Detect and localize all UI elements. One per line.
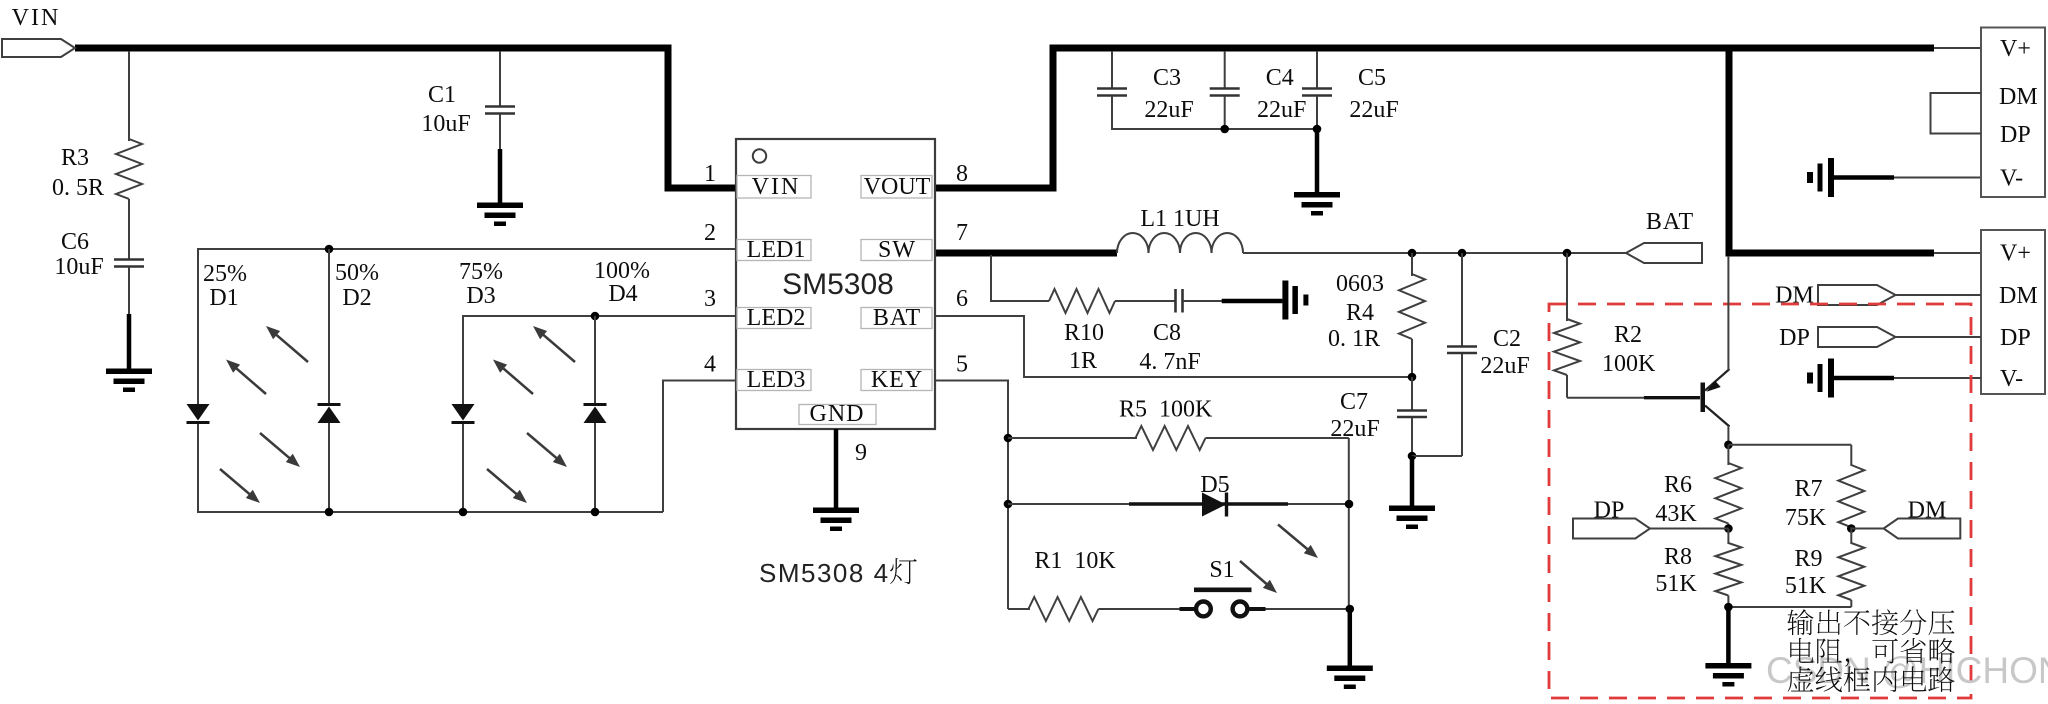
- wire D2 upper lead: [328, 249, 330, 405]
- wire R5 right down: [1348, 438, 1350, 609]
- wire L1 to BAT flag: [1243, 252, 1627, 254]
- ground at OUT1 V-: [1828, 158, 1834, 197]
- junction dot S1 right: [1346, 605, 1355, 614]
- junction dot C2 top: [1458, 249, 1467, 258]
- ground below C6: [106, 369, 152, 375]
- svg-text:DM: DM: [1999, 84, 2038, 110]
- junction dot R5 left: [1004, 434, 1013, 443]
- svg-text:DM: DM: [1908, 498, 1947, 524]
- resistor R10: [1049, 289, 1115, 313]
- svg-text:R10: R10: [1064, 320, 1104, 346]
- connector OUT2 port: [1981, 230, 2045, 394]
- svg-text:VIN: VIN: [12, 5, 61, 31]
- svg-text:VOUT: VOUT: [864, 174, 931, 200]
- svg-text:SM5308: SM5308: [782, 268, 894, 301]
- svg-text:0603: 0603: [1336, 271, 1384, 297]
- IC pin box LED1: [737, 240, 811, 261]
- capacitor C1: [485, 105, 515, 108]
- svg-text:0. 1R: 0. 1R: [1328, 326, 1380, 352]
- junction dot C5 bottom: [1313, 125, 1322, 134]
- ground below divider: [1705, 663, 1751, 669]
- connector DM flag right: [1818, 285, 1896, 305]
- resistor R9: [1850, 527, 1852, 544]
- svg-text:SW: SW: [878, 237, 916, 263]
- IC pin box SW: [861, 240, 932, 261]
- svg-text:1: 1: [704, 161, 716, 187]
- arrow near D5: [1278, 525, 1312, 553]
- junction dot rail D3: [459, 508, 468, 517]
- svg-text:R6: R6: [1664, 472, 1692, 498]
- junction dot R4 top: [1408, 249, 1417, 258]
- IC pin box VOUT: [861, 176, 932, 199]
- svg-text:43K: 43K: [1655, 501, 1697, 527]
- red dashed box: [1549, 304, 1971, 698]
- junction dot divider ground: [1724, 603, 1733, 612]
- svg-text:LED2: LED2: [747, 305, 806, 331]
- LED D3: [452, 404, 475, 421]
- wire C8 to ground: [1183, 300, 1223, 302]
- svg-text:DP: DP: [2000, 325, 2031, 351]
- svg-text:51K: 51K: [1655, 571, 1697, 597]
- wire VIN to R3: [128, 51, 130, 141]
- wire C1 to ground: [499, 114, 501, 151]
- svg-text:R9: R9: [1794, 546, 1822, 572]
- svg-text:5: 5: [956, 352, 968, 378]
- svg-text:L1 1UH: L1 1UH: [1140, 206, 1219, 232]
- junction dot D4 top: [591, 312, 600, 321]
- wire R7 branch: [1728, 444, 1851, 446]
- junction dot C7 bottom: [1408, 452, 1417, 461]
- wire D4 upper lead: [594, 316, 596, 405]
- resistor R1: [1008, 608, 1030, 610]
- svg-text:DP: DP: [2000, 122, 2031, 148]
- IC pin box BAT: [861, 308, 932, 329]
- LED D2: [318, 403, 341, 406]
- svg-text:10uF: 10uF: [54, 254, 103, 280]
- junction dot D5 right: [1345, 500, 1354, 509]
- wire D1 lower lead: [197, 421, 199, 513]
- svg-text:D5: D5: [1200, 472, 1229, 498]
- diode D5: [1202, 493, 1226, 517]
- svg-text:100K: 100K: [1602, 351, 1656, 377]
- svg-text:C8: C8: [1153, 320, 1181, 346]
- IC pin box GND: [799, 405, 876, 425]
- resistor R5: [1008, 437, 1137, 439]
- svg-text:4. 7nF: 4. 7nF: [1139, 349, 1200, 375]
- svg-text:R3: R3: [61, 145, 89, 171]
- wire R9 bottom rail: [1728, 606, 1851, 608]
- svg-text:7: 7: [956, 220, 968, 246]
- capacitor C8: [1174, 289, 1177, 313]
- connector OUT1 port: [1981, 28, 2045, 198]
- svg-text:BAT: BAT: [1646, 209, 1694, 235]
- svg-text:R4: R4: [1346, 300, 1374, 326]
- svg-text:R5 100K: R5 100K: [1119, 397, 1213, 423]
- svg-text:75%: 75%: [459, 259, 503, 285]
- svg-text:4: 4: [704, 352, 716, 378]
- svg-text:50%: 50%: [335, 260, 379, 286]
- svg-text:1R: 1R: [1069, 348, 1097, 374]
- svg-text:D4: D4: [608, 281, 637, 307]
- connector VIN flag: [2, 39, 75, 57]
- wire pin5 KEY net: [936, 381, 1008, 610]
- wire C7 to ground: [1410, 456, 1415, 506]
- resistor R6: [1727, 445, 1729, 465]
- svg-text:C6: C6: [61, 229, 89, 255]
- svg-text:V+: V+: [2000, 241, 2031, 267]
- wire pin2 LED1 net: [198, 249, 736, 405]
- junction dot Q1 collector node: [1724, 441, 1733, 450]
- IC pin box LED2: [737, 308, 811, 329]
- svg-text:C5: C5: [1358, 65, 1386, 91]
- ground at OUT2 V-: [1828, 359, 1834, 398]
- svg-text:R7: R7: [1794, 476, 1822, 502]
- svg-text:22uF: 22uF: [1349, 97, 1398, 123]
- switch S1: [1180, 607, 1195, 611]
- svg-text:22uF: 22uF: [1480, 353, 1529, 379]
- wire C3 C4 C5 bottom rail: [1112, 128, 1317, 130]
- wire VIN to C1: [499, 51, 501, 107]
- IC pin1 indicator circle: [753, 149, 766, 162]
- svg-text:3: 3: [704, 286, 716, 312]
- svg-text:DP: DP: [1594, 498, 1625, 524]
- wire pin6 BAT to R4 bottom: [936, 316, 1412, 377]
- wire VOUT to OUT1 V+ branch down to BAT node: [1729, 48, 1934, 253]
- svg-text:22uF: 22uF: [1144, 97, 1193, 123]
- svg-text:75K: 75K: [1785, 505, 1827, 531]
- resistor R8: [1727, 529, 1729, 545]
- wire R2 to transistor base: [1567, 397, 1695, 399]
- svg-text:KEY: KEY: [871, 367, 923, 393]
- resistor R3: [116, 139, 142, 199]
- ground below C5: [1294, 192, 1340, 198]
- wire OUT1 DM DP bracket: [1931, 93, 1982, 134]
- svg-text:2: 2: [704, 220, 716, 246]
- junction dot R6 R8: [1724, 524, 1733, 533]
- svg-text:R8: R8: [1664, 544, 1692, 570]
- junction dot C4 bottom: [1220, 125, 1229, 134]
- svg-text:6: 6: [956, 286, 968, 312]
- svg-text:0. 5R: 0. 5R: [52, 175, 104, 201]
- wire SW to R10: [991, 255, 1049, 301]
- svg-text:V-: V-: [2000, 366, 2023, 392]
- wire R3 to C6: [128, 199, 130, 260]
- junction dot rail D2: [325, 508, 334, 517]
- svg-text:LED3: LED3: [747, 367, 806, 393]
- LED arrows cell 1: [272, 331, 308, 362]
- junction dot rail D4: [591, 508, 600, 517]
- wire D3 lower lead: [462, 421, 464, 513]
- ground below S1: [1327, 666, 1373, 672]
- wire IC GND pin stem: [834, 429, 839, 508]
- IC pin box VIN: [737, 176, 811, 199]
- connector DP flag left: [1573, 519, 1650, 539]
- capacitor C4: [1224, 51, 1226, 89]
- svg-text:D2: D2: [342, 285, 371, 311]
- connector DM flag left-pointing: [1884, 519, 1961, 539]
- inductor L1: [1117, 233, 1243, 253]
- wire pin4 LED3 net: [663, 381, 736, 513]
- LED D4: [584, 403, 607, 406]
- wire cap bank to ground: [1315, 129, 1320, 193]
- wire LED bottom rail: [197, 511, 663, 513]
- junction dot R4 bottom: [1408, 373, 1417, 382]
- wire D5 row: [1008, 503, 1349, 505]
- svg-text:22uF: 22uF: [1257, 97, 1306, 123]
- svg-text:V-: V-: [2000, 166, 2023, 192]
- wire pin3 LED2 net: [463, 316, 736, 405]
- LED arrows cell 2: [539, 331, 575, 362]
- svg-text:51K: 51K: [1785, 573, 1827, 599]
- wire D4 lower lead: [594, 422, 596, 513]
- capacitor C6: [114, 258, 144, 261]
- connector DP flag right: [1818, 327, 1896, 347]
- wire divider to ground: [1726, 607, 1731, 664]
- svg-text:VIN: VIN: [752, 174, 801, 200]
- wire R10 to C8: [1115, 300, 1176, 302]
- svg-text:8: 8: [956, 161, 968, 187]
- junction dot D2 top: [325, 245, 334, 254]
- net VOUT thick bus wire: [930, 48, 1934, 188]
- svg-text:GND: GND: [810, 401, 865, 427]
- svg-text:S1: S1: [1209, 557, 1234, 583]
- capacitor C3: [1111, 51, 1113, 89]
- svg-text:LED1: LED1: [747, 237, 806, 263]
- svg-text:D1: D1: [209, 285, 238, 311]
- wire D2 lower lead: [328, 422, 330, 513]
- svg-text:10uF: 10uF: [421, 111, 470, 137]
- IC pin box KEY: [861, 370, 932, 391]
- junction dot D5 left: [1004, 500, 1013, 509]
- svg-text:V+: V+: [2000, 36, 2031, 62]
- net SW thick wire pin7: [930, 250, 1117, 257]
- svg-text:R1 10K: R1 10K: [1034, 548, 1116, 574]
- svg-text:R2: R2: [1614, 322, 1642, 348]
- svg-text:DM: DM: [1999, 283, 2038, 309]
- arrow near S1: [1240, 561, 1271, 588]
- LED D1: [187, 404, 210, 421]
- resistor R4: [1411, 253, 1413, 276]
- capacitor C5: [1316, 51, 1318, 89]
- svg-text:25%: 25%: [203, 261, 247, 287]
- svg-text:9: 9: [855, 440, 867, 466]
- IC U1 SM5308 body: [736, 139, 935, 429]
- wire R7 R9 to DM flag: [1851, 528, 1883, 530]
- ground below C1: [477, 203, 523, 209]
- svg-text:C7: C7: [1340, 389, 1368, 415]
- capacitor C2: [1461, 253, 1463, 347]
- svg-text:C4: C4: [1266, 65, 1294, 91]
- svg-text:C1: C1: [428, 82, 456, 108]
- junction dot R2 top: [1563, 249, 1572, 258]
- IC pin box LED3: [737, 370, 811, 391]
- resistor R2: [1566, 253, 1568, 321]
- svg-text:C3: C3: [1153, 65, 1181, 91]
- wire S1 to ground: [1348, 609, 1353, 666]
- note Chinese annotation: [1787, 609, 1813, 635]
- resistor R7: [1838, 465, 1864, 527]
- svg-text:D3: D3: [466, 283, 495, 309]
- ground below IC GND: [813, 508, 859, 514]
- junction dot R7 R9: [1847, 524, 1856, 533]
- ground right of C8: [1282, 281, 1288, 320]
- svg-text:C2: C2: [1493, 326, 1521, 352]
- svg-text:BAT: BAT: [873, 305, 921, 331]
- wire C7 bottom to C2 bottom: [1412, 455, 1462, 457]
- capacitor C7: [1411, 377, 1413, 411]
- ground below C7: [1389, 506, 1435, 512]
- wire C6 to ground: [128, 267, 130, 316]
- svg-text:SM5308 4: SM5308 4: [759, 558, 890, 588]
- net VIN thick bus wire: [75, 48, 740, 188]
- svg-text:DP: DP: [1779, 325, 1810, 351]
- transistor Q1 PNP: [1701, 383, 1706, 413]
- connector BAT flag: [1626, 243, 1702, 263]
